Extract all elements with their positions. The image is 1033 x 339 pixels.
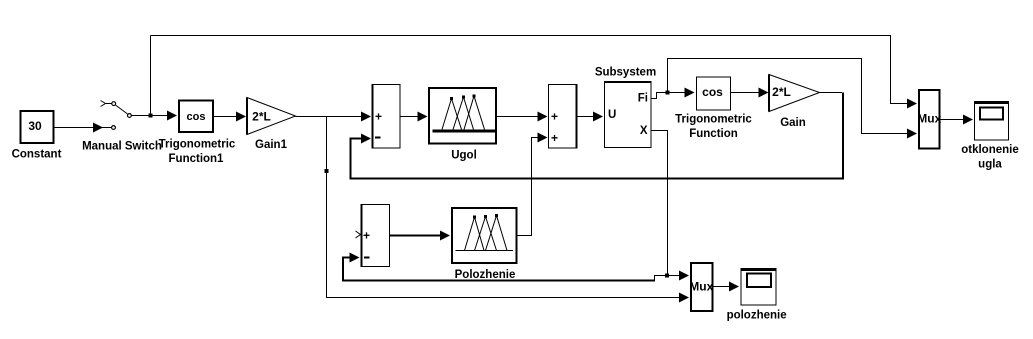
svg-text:Mux: Mux bbox=[917, 111, 941, 125]
svg-text:Constant: Constant bbox=[12, 149, 62, 161]
svg-text:ugla: ugla bbox=[978, 159, 1002, 171]
svg-text:Trigonometric: Trigonometric bbox=[159, 139, 236, 151]
svg-text:Gain: Gain bbox=[780, 117, 806, 129]
svg-text:Fi: Fi bbox=[638, 93, 648, 105]
svg-text:Subsystem: Subsystem bbox=[595, 67, 656, 79]
svg-text:+: + bbox=[363, 229, 370, 243]
svg-text:Ugol: Ugol bbox=[451, 150, 477, 162]
svg-text:Mux: Mux bbox=[689, 279, 713, 293]
svg-text:2*L: 2*L bbox=[252, 110, 271, 124]
svg-text:Gain1: Gain1 bbox=[255, 139, 288, 151]
svg-text:cos: cos bbox=[702, 85, 723, 99]
svg-text:Polozhenie: Polozhenie bbox=[455, 269, 516, 281]
svg-text:Function1: Function1 bbox=[169, 153, 225, 165]
svg-text:Manual Switch: Manual Switch bbox=[82, 141, 162, 153]
svg-text:2*L: 2*L bbox=[772, 85, 791, 99]
svg-text:+: + bbox=[551, 131, 558, 145]
svg-text:otklonenie: otklonenie bbox=[961, 144, 1019, 156]
svg-text:U: U bbox=[608, 109, 616, 121]
svg-text:polozhenie: polozhenie bbox=[727, 310, 787, 322]
svg-text:+: + bbox=[375, 110, 382, 124]
svg-text:cos: cos bbox=[187, 111, 206, 123]
svg-text:30: 30 bbox=[28, 119, 42, 133]
svg-text:Function: Function bbox=[689, 128, 738, 140]
svg-text:X: X bbox=[640, 125, 648, 137]
svg-text:+: + bbox=[551, 110, 558, 124]
svg-text:Trigonometric: Trigonometric bbox=[675, 114, 752, 126]
